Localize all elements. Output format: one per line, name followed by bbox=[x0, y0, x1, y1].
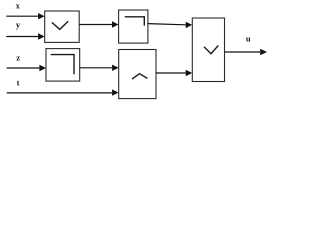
svg-text:z: z bbox=[16, 53, 20, 63]
svg-text:t: t bbox=[17, 78, 20, 88]
svg-text:u: u bbox=[246, 34, 251, 44]
svg-text:x: x bbox=[16, 0, 21, 10]
